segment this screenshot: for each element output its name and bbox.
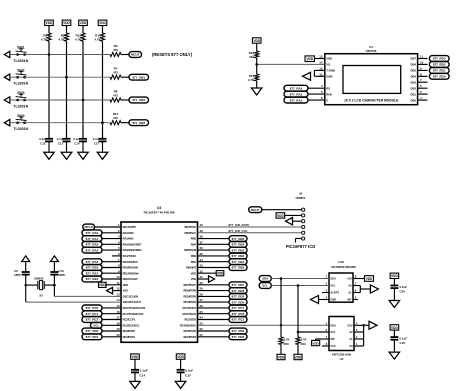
- svg-text:877_RC0: 877_RC0: [86, 306, 99, 310]
- svg-text:RD7/PSP7: RD7/PSP7: [184, 283, 197, 287]
- svg-text:RC7/RX/DT: RC7/RX/DT: [182, 306, 196, 310]
- svg-text:RA3/AN3/VREF+: RA3/AN3/VREF+: [123, 248, 143, 252]
- svg-text:11: 11: [420, 55, 423, 59]
- svg-text:SCL: SCL: [330, 284, 336, 288]
- svg-text:SCL: SCL: [93, 324, 99, 328]
- svg-text:VDD: VDD: [46, 21, 53, 25]
- svg-text:877_RD1: 877_RD1: [86, 335, 99, 339]
- svg-text:877_RD1: 877_RD1: [433, 69, 446, 73]
- svg-text:877_RE1: 877_RE1: [86, 271, 99, 275]
- svg-text:DB3: DB3: [410, 80, 416, 84]
- svg-text:15: 15: [319, 66, 323, 70]
- svg-text:VDD: VDD: [306, 57, 313, 61]
- svg-text:RC0/T1OSO/T1CKI: RC0/T1OSO/T1CKI: [123, 306, 146, 310]
- svg-text:SCL: SCL: [262, 284, 268, 288]
- svg-text:SW2: SW2: [17, 68, 24, 72]
- svg-text:877_ICD_CLK: 877_ICD_CLK: [229, 229, 249, 233]
- svg-text:RD2/PSP2: RD2/PSP2: [184, 335, 197, 339]
- svg-text:+VS: +VS: [347, 277, 352, 281]
- svg-text:VDD: VDD: [99, 283, 106, 287]
- svg-text:13: 13: [319, 55, 323, 59]
- svg-text:24FC256-I/SN: 24FC256-I/SN: [332, 352, 351, 356]
- svg-text:0.1uF: 0.1uF: [185, 369, 193, 373]
- svg-text:A0: A0: [349, 344, 353, 348]
- svg-text:MCLR/VPP: MCLR/VPP: [123, 225, 137, 229]
- svg-text:877_RC2: 877_RC2: [86, 318, 99, 322]
- svg-text:E: E: [326, 98, 328, 102]
- svg-text:0.1uF: 0.1uF: [73, 137, 81, 141]
- svg-text:RB4: RB4: [191, 242, 197, 246]
- svg-text:VSS: VSS: [123, 289, 128, 293]
- svg-text:RA4/T0CKI: RA4/T0CKI: [123, 254, 136, 258]
- svg-text:475: 475: [113, 71, 118, 75]
- svg-text:VDD: VDD: [190, 271, 196, 275]
- svg-text:RB1: RB1: [191, 260, 197, 264]
- svg-text:C17: C17: [94, 142, 100, 146]
- svg-text:877_RD0: 877_RD0: [86, 329, 99, 333]
- svg-text:0.1uF: 0.1uF: [93, 137, 101, 141]
- svg-text:R20: R20: [284, 342, 290, 346]
- svg-text:4.7K: 4.7K: [94, 38, 101, 42]
- svg-text:VDD: VDD: [177, 355, 184, 359]
- svg-text:RA5/AN4/SS: RA5/AN4/SS: [123, 260, 138, 264]
- svg-text:877_RB2: 877_RB2: [232, 254, 245, 258]
- svg-text:877_RA0: 877_RA0: [86, 231, 99, 235]
- svg-text:RA1/AN1: RA1/AN1: [123, 237, 135, 241]
- svg-text:VDD: VDD: [253, 39, 260, 43]
- svg-text:VDD: VDD: [217, 272, 224, 276]
- svg-text:877_RE0: 877_RE0: [86, 266, 99, 270]
- svg-text:4.7K: 4.7K: [248, 78, 255, 82]
- svg-text:DB7: DB7: [410, 57, 416, 61]
- svg-text:VDD: VDD: [313, 341, 319, 345]
- svg-text:877_SW2: 877_SW2: [132, 98, 145, 102]
- svg-text:C9: C9: [14, 269, 18, 273]
- svg-text:RE0/RD/AN5: RE0/RD/AN5: [123, 266, 139, 270]
- svg-text:C14: C14: [140, 373, 146, 377]
- svg-text:18PF: 18PF: [58, 273, 65, 277]
- svg-text:877_SW3: 877_SW3: [132, 121, 145, 125]
- svg-text:U4: U4: [340, 357, 344, 361]
- svg-text:RC3/SCK/SCL: RC3/SCK/SCL: [123, 323, 140, 327]
- svg-text:RD3/PSP3: RD3/PSP3: [184, 329, 197, 333]
- svg-text:877_RA3: 877_RA3: [86, 248, 99, 252]
- svg-text:RD4/PSP4: RD4/PSP4: [184, 300, 197, 304]
- svg-text:VDD: VDD: [63, 21, 70, 25]
- svg-text:475: 475: [113, 93, 118, 97]
- svg-text:SW4: SW4: [17, 114, 24, 118]
- svg-text:C20: C20: [400, 290, 406, 294]
- svg-text:877_RA1: 877_RA1: [86, 237, 99, 241]
- svg-text:SDA: SDA: [262, 277, 269, 281]
- svg-text:SDA: SDA: [330, 323, 336, 327]
- svg-text:RE2/CS/AN7: RE2/CS/AN7: [123, 277, 139, 281]
- svg-text:RD6/PSP6: RD6/PSP6: [184, 289, 197, 293]
- svg-text:SCL: SCL: [330, 330, 336, 334]
- svg-text:VDD: VDD: [123, 283, 129, 287]
- svg-text:RB0/INT: RB0/INT: [186, 266, 196, 270]
- svg-text:GND: GND: [330, 298, 336, 302]
- svg-text:4.7K: 4.7K: [58, 38, 65, 42]
- svg-text:877_RB3: 877_RB3: [232, 248, 245, 252]
- svg-text:C18: C18: [400, 341, 406, 345]
- svg-text:U18: U18: [338, 260, 344, 264]
- svg-text:U3: U3: [157, 206, 161, 210]
- svg-text:T-GND: T-GND: [326, 69, 335, 73]
- svg-text:DB0: DB0: [410, 98, 416, 102]
- svg-text:A1: A1: [349, 337, 353, 341]
- svg-text:39: 39: [200, 229, 204, 233]
- svg-text:SW1: SW1: [17, 46, 24, 50]
- svg-text:RB6/PGC: RB6/PGC: [185, 231, 197, 235]
- svg-text:VDD: VDD: [277, 214, 284, 218]
- svg-text:DB6: DB6: [410, 63, 416, 67]
- svg-text:C12: C12: [40, 142, 46, 146]
- svg-text:877_RD0: 877_RD0: [433, 75, 446, 79]
- svg-text:18PF: 18PF: [14, 273, 21, 277]
- svg-text:0.1uF: 0.1uF: [57, 137, 65, 141]
- svg-text:16 X 2 LCD CHARACTER MODULE: 16 X 2 LCD CHARACTER MODULE: [344, 99, 399, 103]
- svg-text:475: 475: [113, 48, 118, 52]
- svg-text:OSC1/CLKIN: OSC1/CLKIN: [123, 295, 139, 299]
- svg-text:VSS: VSS: [191, 277, 196, 281]
- svg-text:877_RD5: 877_RD5: [232, 295, 245, 299]
- svg-text:877_RD4: 877_RD4: [232, 300, 245, 304]
- svg-text:VDD: VDD: [99, 21, 106, 25]
- svg-text:VDD: VDD: [326, 57, 332, 61]
- svg-text:RC6/TX/CK: RC6/TX/CK: [182, 312, 196, 316]
- svg-text:RD1/PSP1: RD1/PSP1: [123, 335, 136, 339]
- svg-text:MCP9800-M5/SN8: MCP9800-M5/SN8: [331, 265, 356, 269]
- svg-text:VDD: VDD: [366, 277, 373, 281]
- svg-text:R/W: R/W: [326, 92, 332, 96]
- svg-text:10: 10: [420, 60, 424, 64]
- svg-text:877_RB5: 877_RB5: [232, 237, 245, 241]
- svg-text:MCLR: MCLR: [251, 208, 260, 212]
- svg-text:877_RB0: 877_RB0: [232, 266, 245, 270]
- svg-text:877_RC5: 877_RC5: [232, 318, 245, 322]
- svg-text:RC5/SDO: RC5/SDO: [185, 318, 197, 322]
- svg-text:332: 332: [249, 55, 254, 59]
- svg-text:12: 12: [319, 72, 323, 76]
- svg-text:RB7/PGD: RB7/PGD: [185, 225, 197, 229]
- svg-text:DB4: DB4: [410, 75, 416, 79]
- svg-text:4.7K: 4.7K: [75, 38, 82, 42]
- svg-text:MCLR: MCLR: [131, 53, 140, 57]
- svg-text:C15: C15: [185, 373, 191, 377]
- svg-text:A1: A1: [348, 291, 352, 295]
- svg-text:877_RE2: 877_RE2: [86, 277, 99, 281]
- svg-text:A2: A2: [349, 330, 353, 334]
- svg-text:RD5/PSP5: RD5/PSP5: [184, 295, 197, 299]
- svg-text:VDD: VDD: [80, 21, 87, 25]
- svg-text:GND: GND: [326, 75, 332, 79]
- svg-text:877_SW1: 877_SW1: [132, 75, 145, 79]
- svg-text:475: 475: [113, 116, 118, 120]
- svg-text:TL3301N: TL3301N: [13, 104, 28, 108]
- svg-text:877_RC1: 877_RC1: [86, 312, 99, 316]
- svg-text:VDD: VDD: [391, 274, 398, 278]
- svg-text:877_RB4: 877_RB4: [232, 243, 245, 247]
- svg-text:0.1uF: 0.1uF: [140, 369, 148, 373]
- svg-text:PIC16F877 40-PIN DIP: PIC16F877 40-PIN DIP: [144, 211, 175, 215]
- svg-text:SDA: SDA: [330, 277, 336, 281]
- svg-text:877_RC6: 877_RC6: [232, 312, 245, 316]
- svg-text:VDD: VDD: [278, 355, 285, 359]
- svg-text:(RESETS 877 ONLY): (RESETS 877 ONLY): [152, 52, 193, 57]
- svg-text:877_RD7: 877_RD7: [232, 283, 245, 287]
- svg-text:877_RA3: 877_RA3: [290, 86, 303, 90]
- svg-text:877_RD6: 877_RD6: [232, 289, 245, 293]
- svg-text:TL3301N: TL3301N: [13, 82, 28, 86]
- svg-text:INT: INT: [347, 298, 352, 302]
- svg-text:TL3301N: TL3301N: [13, 59, 28, 63]
- svg-text:RS: RS: [326, 86, 330, 90]
- svg-text:WP: WP: [330, 337, 334, 341]
- svg-text:C16: C16: [74, 142, 80, 146]
- svg-text:X2: X2: [39, 293, 43, 297]
- svg-text:OD7528: OD7528: [366, 49, 377, 53]
- svg-text:877_RA1: 877_RA1: [290, 98, 303, 102]
- svg-text:RC1/T1OSI/CCP2: RC1/T1OSI/CCP2: [123, 312, 144, 316]
- svg-text:20MHZ: 20MHZ: [34, 277, 44, 281]
- svg-text:877_RD3: 877_RD3: [433, 57, 446, 61]
- svg-text:877_RD2: 877_RD2: [433, 63, 446, 67]
- svg-text:C11: C11: [58, 142, 64, 146]
- svg-text:R19: R19: [301, 342, 307, 346]
- svg-text:RB2: RB2: [191, 254, 197, 258]
- svg-text:DB5: DB5: [410, 69, 416, 73]
- svg-text:877_RD2: 877_RD2: [232, 335, 245, 339]
- svg-text:14: 14: [319, 60, 323, 64]
- svg-text:VCC: VCC: [330, 344, 336, 348]
- svg-text:RB3/PGM: RB3/PGM: [184, 248, 197, 252]
- svg-text:PIC16F877 ICD: PIC16F877 ICD: [286, 244, 316, 249]
- svg-text:877_RB1: 877_RB1: [232, 260, 245, 264]
- svg-text:OSC2/CLKOUT: OSC2/CLKOUT: [123, 300, 142, 304]
- svg-text:VDD: VDD: [132, 355, 139, 359]
- svg-text:RB5: RB5: [191, 237, 197, 241]
- svg-text:4.7K: 4.7K: [41, 38, 48, 42]
- svg-text:VDD: VDD: [391, 326, 398, 330]
- svg-text:ALERT: ALERT: [330, 291, 339, 295]
- svg-text:C13: C13: [58, 269, 64, 273]
- svg-text:VDD: VDD: [295, 355, 302, 359]
- svg-text:877_RA2: 877_RA2: [290, 92, 303, 96]
- svg-text:RA0/AN0: RA0/AN0: [123, 231, 135, 235]
- svg-text:RC4/SDI/SDA: RC4/SDI/SDA: [180, 323, 196, 327]
- svg-text:DB1: DB1: [410, 92, 416, 96]
- svg-text:0.1uF: 0.1uF: [400, 337, 408, 341]
- svg-text:877_RA2: 877_RA2: [86, 243, 99, 247]
- svg-text:877_ICD_DATA: 877_ICD_DATA: [229, 223, 251, 227]
- svg-text:RC2/CCP1: RC2/CCP1: [123, 318, 136, 322]
- svg-text:877_RC7: 877_RC7: [232, 306, 245, 310]
- svg-text:877_RD3: 877_RD3: [232, 329, 245, 333]
- svg-text:0.1uF: 0.1uF: [400, 285, 408, 289]
- svg-text:SW3: SW3: [17, 91, 24, 95]
- svg-text:A0: A0: [348, 284, 352, 288]
- svg-text:VSS: VSS: [347, 323, 352, 327]
- svg-text:0.1uF: 0.1uF: [39, 137, 47, 141]
- svg-text:RD0/PSP0: RD0/PSP0: [123, 329, 136, 333]
- svg-text:TL3301N: TL3301N: [13, 127, 28, 131]
- svg-text:MCLR: MCLR: [85, 225, 94, 229]
- svg-text:DB2: DB2: [410, 86, 416, 90]
- svg-text:877_RA5: 877_RA5: [86, 260, 99, 264]
- svg-text:RA2/AN2/VREF-: RA2/AN2/VREF-: [123, 242, 142, 246]
- svg-text:HDM01: HDM01: [296, 196, 306, 200]
- svg-text:RE1/WR/AN6: RE1/WR/AN6: [123, 271, 139, 275]
